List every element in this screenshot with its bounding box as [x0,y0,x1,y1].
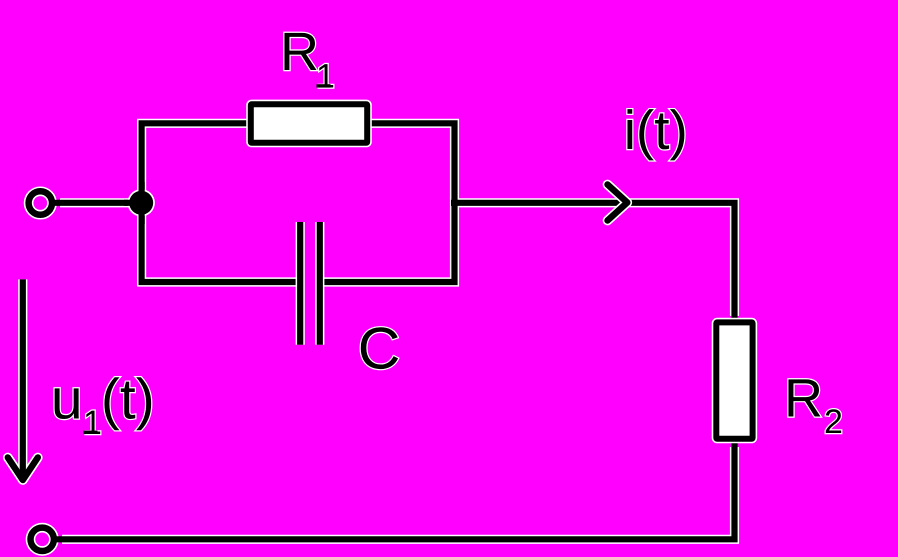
svg-text:1: 1 [83,404,102,442]
node A (junction dot) [124,182,155,224]
svg-text:u: u [51,368,83,432]
label i(t) [624,99,688,161]
arrowhead current direction i(t) [608,185,628,221]
svg-text:(t): (t) [101,368,155,432]
wire upper-left branch (top-left segment, left vertical, bottom-left segment) [142,123,299,282]
svg-text:2: 2 [824,403,843,441]
label R2 [784,368,843,441]
wire T1 to node A [53,198,139,207]
capacitor C (two plates) [300,222,320,345]
label R1 [280,22,335,95]
terminal T2 (bottom) [31,528,54,551]
svg-text:R: R [784,368,823,428]
terminal T1 (input top) [29,191,52,214]
arrow u1(t) direction (left side, pointing down) [8,279,38,480]
wire output i(t) with corner down to R2 [451,203,735,322]
svg-text:1: 1 [316,57,335,95]
svg-text:i(t): i(t) [624,99,688,161]
label C [358,316,401,382]
resistor R2 [716,322,752,438]
label u1(t) [51,368,155,442]
wire upper-right branch (top-right segment, right vertical, bottom-right segment) [321,123,455,282]
svg-text:C: C [358,316,401,382]
svg-text:R: R [280,22,319,82]
resistor R1 [251,104,367,143]
wire bottom return (R2 bottom down, across to T2) [55,441,735,539]
